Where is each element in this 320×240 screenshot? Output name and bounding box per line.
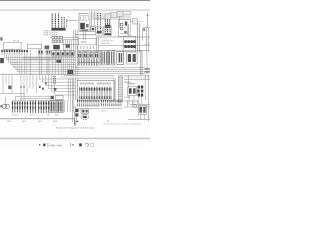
tick xyxy=(0,105,2,107)
mark xyxy=(143,28,145,30)
bottom-left module cluster xyxy=(72,100,74,122)
node marks left xyxy=(0,37,2,40)
wire xyxy=(128,119,150,121)
fuse chain F6 xyxy=(66,19,68,28)
svg-text:(45% / 4%): (45% / 4%) xyxy=(50,144,63,147)
labeled block row S xyxy=(78,50,83,58)
wire xyxy=(101,107,123,109)
resistor row R10 xyxy=(52,36,54,39)
battery symbol G1 xyxy=(5,97,7,104)
vertical wires zone Z xyxy=(2,75,4,94)
wire xyxy=(128,24,130,36)
wire rail above blocks xyxy=(112,50,150,52)
flat box W label xyxy=(79,39,97,45)
pin row bottom center2 xyxy=(100,100,102,106)
bracket xyxy=(74,107,76,112)
wire xyxy=(142,28,144,40)
tick right xyxy=(143,27,150,29)
small box L1 xyxy=(27,44,42,49)
icon refresh xyxy=(85,143,88,146)
svg-text:Fig.6 Circuit Diagram (2 of 2: Fig.6 Circuit Diagram (2 of 2) Schematic xyxy=(56,126,96,129)
head boxes mid xyxy=(38,50,42,54)
wire xyxy=(98,44,150,46)
wire xyxy=(130,21,142,23)
tick row under W18 box xyxy=(77,46,79,49)
dense block bottom xyxy=(50,100,56,112)
tall connector bar CB1 xyxy=(118,76,122,103)
step box B3 xyxy=(117,11,123,16)
diamond stems xyxy=(138,97,140,105)
comp cluster xyxy=(51,96,54,99)
pin array mid rail xyxy=(78,61,100,63)
vertical wires xyxy=(67,75,69,100)
wire top bus xyxy=(66,20,79,22)
terminal strip T1 xyxy=(104,20,106,29)
pin columns left xyxy=(11,101,13,113)
tall component T2 xyxy=(117,52,124,65)
connector block C6 xyxy=(104,27,112,36)
junction K xyxy=(66,44,70,48)
module box M1 xyxy=(133,19,138,25)
icon light box xyxy=(91,143,94,146)
wire xyxy=(146,52,148,75)
tick xyxy=(144,43,150,45)
pin columns mid xyxy=(29,101,31,114)
wire bus right xyxy=(75,66,145,68)
tick xyxy=(146,15,150,17)
fuse chain F4 xyxy=(61,17,63,28)
step box B2 xyxy=(111,13,117,18)
wire xyxy=(147,100,149,122)
junction box JB xyxy=(91,27,96,32)
wire long bus xyxy=(96,36,150,38)
light band over ECU xyxy=(64,74,115,76)
wires right of ECU xyxy=(113,79,115,101)
junction blobs xyxy=(57,60,62,63)
wire pair drop xyxy=(91,11,93,27)
fuse chain F1 xyxy=(51,14,53,28)
wire xyxy=(75,34,96,36)
block row U xyxy=(127,52,138,64)
separator xyxy=(47,143,50,147)
vertical wires mid xyxy=(29,55,31,75)
tick marks xyxy=(124,31,127,33)
wires right edge xyxy=(144,75,146,100)
svg-text:W18xx: W18xx xyxy=(12,115,18,117)
svg-text:W18: W18 xyxy=(81,41,87,44)
label smudges right xyxy=(124,82,131,83)
arrow mark xyxy=(54,88,57,91)
wires right bottom xyxy=(126,100,128,107)
wire xyxy=(124,79,150,81)
wire pair Y xyxy=(139,50,141,75)
toolbar divider xyxy=(0,9,150,12)
connector row CR1 xyxy=(1,50,3,52)
fuse chain F5 xyxy=(63,17,65,28)
svg-text:W18 C: W18 C xyxy=(102,111,108,113)
relay box K1 xyxy=(79,14,90,32)
dark module cluster T xyxy=(100,50,107,65)
svg-text:3B58: 3B58 xyxy=(53,121,57,123)
fuse chain F3 xyxy=(58,14,60,28)
step box B1 xyxy=(105,14,111,19)
dashed pair xyxy=(52,76,54,84)
dark tag left edge xyxy=(0,58,4,63)
wire staircase fanin xyxy=(38,75,40,79)
ECU pin row xyxy=(79,86,81,96)
right edge marks xyxy=(145,68,151,69)
svg-text:3B58: 3B58 xyxy=(38,121,42,123)
component box tall xyxy=(119,20,131,37)
bus bottom wire xyxy=(0,73,75,75)
component small xyxy=(8,86,11,90)
pin array W xyxy=(77,58,79,66)
wire xyxy=(40,49,42,51)
wire xyxy=(119,17,121,29)
wire xyxy=(38,49,40,51)
junction cluster xyxy=(53,45,60,50)
shading wash band xyxy=(23,56,62,60)
scan shading backdrop xyxy=(89,12,132,20)
diagram bottom frame xyxy=(0,118,76,120)
ECU box U10 xyxy=(77,81,114,100)
corner dots xyxy=(39,86,41,88)
vertical drop wires xyxy=(21,55,23,75)
wire pair below K1 xyxy=(82,31,84,40)
pin columns top rail xyxy=(12,100,62,102)
label smudge xyxy=(127,83,136,84)
wires xyxy=(63,100,65,112)
wire dots xyxy=(21,86,22,88)
wire xyxy=(127,75,129,88)
nav arrow right xyxy=(73,144,74,146)
nested box corner xyxy=(16,96,51,100)
diode D1 xyxy=(125,22,127,26)
connector block C5 xyxy=(96,27,103,35)
wire right edge xyxy=(146,13,148,29)
wire connect xyxy=(122,100,138,102)
comp cluster right bottom xyxy=(138,105,146,114)
wire xyxy=(120,33,128,35)
svg-text:W05xx: W05xx xyxy=(30,115,36,117)
ECU label band xyxy=(80,82,95,84)
harness bundle left xyxy=(73,30,75,100)
step box B4 xyxy=(123,11,131,14)
separator2 xyxy=(69,143,72,147)
svg-text:3B58: 3B58 xyxy=(7,121,11,123)
comp box R cluster xyxy=(128,87,137,95)
nav square xyxy=(43,144,45,147)
fuse chain F2 xyxy=(54,14,56,28)
relay box K3 xyxy=(123,36,136,52)
ECU pin feet xyxy=(78,96,81,99)
top window edge xyxy=(0,0,150,1)
bus fanout wires xyxy=(5,56,76,58)
wire pair vertical xyxy=(137,23,139,52)
wire xyxy=(29,49,31,55)
page mark xyxy=(74,120,75,126)
chain feet band xyxy=(51,28,65,31)
svg-text:3B58: 3B58 xyxy=(22,121,26,123)
wire stems R cluster xyxy=(128,95,130,104)
wire right pair xyxy=(146,28,148,52)
connector row CR2 blocks xyxy=(52,50,56,56)
wire xyxy=(0,93,25,95)
pin columns mid rails xyxy=(12,103,62,105)
status bar divider xyxy=(0,137,150,140)
resistor row R11 xyxy=(52,40,54,43)
nav arrow left xyxy=(39,144,40,146)
icon dark square xyxy=(79,143,82,146)
wire bus mid xyxy=(62,36,79,38)
pin row bottom center xyxy=(76,100,78,107)
wire xyxy=(76,108,100,110)
harness verticals center xyxy=(63,40,65,75)
ECU pin top blobs xyxy=(79,88,80,91)
wire pair xyxy=(96,37,98,52)
svg-text:W05: W05 xyxy=(55,115,59,117)
wire xyxy=(95,18,107,20)
svg-text:1B08 W18: 1B08 W18 xyxy=(101,43,110,45)
connector pins J2 xyxy=(97,13,99,31)
dark diamond cluster xyxy=(138,86,140,89)
svg-text:* For Only Use Of Circuit Diag: * For Only Use Of Circuit Diagram Schema… xyxy=(103,123,141,126)
vertical wires c xyxy=(52,57,54,76)
